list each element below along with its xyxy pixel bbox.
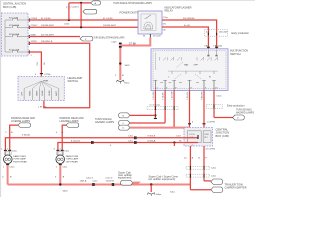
svg-text:OFF: OFF [194, 65, 199, 67]
fuse F2.10 15A [9, 24, 28, 28]
svg-text:SWITCH: SWITCH [68, 79, 79, 83]
lamp1 ground drop 57 BK [2, 165, 12, 185]
flasher thermal element [144, 22, 153, 29]
svg-text:1 A C2d3: 1 A C2d3 [219, 30, 229, 33]
connector C250F pin row1 [29, 18, 37, 22]
flasher relay box [138, 5, 192, 34]
svg-text:C4xx 4: C4xx 4 [86, 177, 94, 179]
svg-text:BOX (CJB): BOX (CJB) [3, 5, 16, 9]
wire flasher output 2 to MF switch top [162, 25, 208, 50]
wire 521 fuse3 to flag F [29, 34, 81, 36]
svg-text:C250: C250 [64, 24, 70, 26]
svg-text:194 BK-WHT: 194 BK-WHT [103, 25, 117, 27]
parking lamps flag left [10, 116, 35, 150]
lamp2 ground drop 57 BK [55, 165, 65, 185]
flag E trailer ground [118, 170, 141, 185]
svg-text:HAZARD LAMPS: HAZARD LAMPS [95, 120, 114, 124]
svg-text:S431: S431 [125, 65, 131, 67]
fuse F2.7 20A [9, 17, 28, 21]
splice and ground G401 [147, 183, 162, 196]
svg-text:LICENSE LAMPS: LICENSE LAMPS [11, 119, 30, 123]
headlamp switch output pin label [38, 106, 47, 108]
multifunction switch box [151, 49, 248, 91]
svg-text:equipment): equipment) [118, 176, 132, 180]
svg-text:PWR: PWR [204, 134, 209, 136]
svg-text:F2.7 20A: F2.7 20A [9, 17, 18, 20]
MF output wire 2 to flag C [163, 91, 166, 123]
svg-text:F2.50 20A: F2.50 20A [9, 49, 20, 52]
MF output wire 1 to flag B [153, 91, 157, 119]
wire 296 LB headlamp switch feed [29, 52, 47, 81]
flag D front lamps highlighted wire [119, 125, 190, 130]
early production connector row right [207, 103, 245, 108]
MF output wire 3 to flag D line [172, 91, 175, 128]
svg-text:C4xI: C4xI [176, 136, 181, 138]
svg-text:Early production: Early production [232, 31, 250, 35]
trailer connector row 1 [186, 166, 217, 170]
splice S204 on row1 [68, 19, 70, 21]
early production connector row left [147, 105, 178, 110]
svg-text:RIGHT REAR: RIGHT REAR [13, 160, 27, 163]
svg-text:LICENSE LAMPS: LICENSE LAMPS [60, 119, 79, 123]
svg-text:8 205-A: 8 205-A [148, 139, 156, 142]
svg-text:1 DG-WH: 1 DG-WH [172, 91, 174, 100]
splice dot on bus2 [173, 141, 175, 146]
svg-text:8 BR-WH: 8 BR-WH [201, 91, 203, 100]
flag A off-page [91, 1, 101, 5]
connector C2xx at ground corner [111, 41, 121, 47]
svg-text:PARK/TURN: PARK/TURN [13, 155, 26, 158]
bus2 turn feed wire [58, 139, 198, 150]
svg-text:G2xx: G2xx [124, 82, 130, 84]
svg-text:5 1 3 C2xx: 5 1 3 C2xx [150, 105, 161, 107]
flasher pin labels [143, 17, 169, 38]
svg-text:PARK/TURN: PARK/TURN [66, 155, 79, 158]
svg-text:HAZ: HAZ [184, 64, 189, 67]
ground G200 [115, 75, 130, 84]
fuse F2.16 20A [9, 33, 28, 37]
flag B power distribution [83, 9, 97, 14]
svg-text:1 C2P92: 1 C2P92 [207, 122, 216, 124]
park turn lamp left rear bulb [54, 148, 79, 168]
svg-text:HEAD: HEAD [41, 90, 44, 96]
svg-text:HEAD: HEAD [48, 90, 51, 96]
wire 41 LG-RD fuse1 to flasher [29, 18, 139, 20]
splice junction row2 [80, 26, 82, 28]
trailer tow flag lower [190, 182, 246, 192]
MF internal turn row [168, 71, 218, 79]
svg-text:C2xC: C2xC [216, 96, 222, 98]
MF contact pads and bottom pins [153, 80, 218, 90]
svg-text:TURN LAMP: TURN LAMP [66, 158, 79, 161]
connector pin row5 [29, 50, 32, 56]
svg-text:9 304-B: 9 304-B [148, 136, 156, 138]
trailer feed wire left from CJB [184, 146, 194, 190]
flasher ground wire 57 BK [120, 34, 150, 80]
connector C250C pin row2 [29, 25, 37, 29]
svg-text:PARK: PARK [36, 90, 39, 96]
trailer feed wire right from CJB [198, 146, 216, 181]
svg-text:PARK: PARK [29, 90, 32, 96]
splice on wire1 feeding flag B [154, 114, 156, 116]
trailer connector row 2 [186, 174, 217, 178]
text super crew upfitter [149, 174, 178, 181]
svg-text:TURN SIGNAL/STOP/HAZARD LAMPS: TURN SIGNAL/STOP/HAZARD LAMPS [113, 1, 152, 5]
svg-text:C2xx 4: C2xx 4 [106, 177, 114, 179]
wire 194 BK-WH fuse2 to flasher [29, 25, 139, 27]
connector pins on wires 4-5 [188, 122, 216, 124]
svg-text:SWITCH: SWITCH [230, 52, 241, 56]
svg-text:57 BK: 57 BK [129, 41, 137, 45]
MF output wire 6 to hazard flag [214, 91, 222, 118]
wire corner to hazard lamps flag [214, 117, 233, 119]
svg-text:C270b: C270b [44, 74, 51, 76]
splice S431 on ground [119, 62, 130, 66]
svg-text:4 A: 4 A [206, 30, 210, 33]
svg-text:(w/ upfitter equipment): (w/ upfitter equipment) [149, 177, 176, 181]
flag B rear lamps [119, 113, 156, 118]
svg-text:2 LG-WH: 2 LG-WH [153, 91, 155, 100]
svg-text:S401: S401 [63, 191, 69, 193]
svg-text:Early production: Early production [227, 103, 245, 107]
svg-text:F2.16 20A: F2.16 20A [9, 33, 20, 36]
CJB internal power bus [5, 20, 12, 52]
label 2 B at flag1 riser [5, 132, 63, 134]
svg-text:12 C2d7: 12 C2d7 [153, 36, 162, 38]
central junction box CJB [2, 2, 29, 56]
bottom ground bus 57 BK [8, 177, 191, 186]
wire riser to power distribution flag [80, 3, 82, 27]
svg-text:BATT: BATT [55, 90, 58, 96]
flag C rear lamps [119, 121, 166, 126]
flasher contact arm [144, 15, 151, 19]
svg-text:12 C2P92: 12 C2P92 [205, 148, 216, 150]
svg-text:9 304-A: 9 304-A [22, 133, 30, 136]
svg-text:1 97 12V: 1 97 12V [38, 106, 47, 108]
svg-text:TURN LAMP: TURN LAMP [13, 158, 26, 161]
connector C2x2 pins above MF switch [204, 45, 223, 48]
MF output wire 4 to CJB fuse box [187, 91, 190, 128]
trailer tow flag upper [204, 179, 223, 184]
svg-text:41 LG RD: 41 LG RD [103, 18, 113, 20]
connector pin row4 [29, 41, 37, 45]
connector C270b on riser [35, 74, 51, 77]
wire flasher output 1 to MF switch top [162, 18, 217, 50]
svg-text:TURN SIGNAL/STOP/HAZARD LAMPS: TURN SIGNAL/STOP/HAZARD LAMPS [94, 36, 125, 40]
page top border [0, 0, 255, 1]
svg-text:M: M [143, 36, 145, 38]
splice S401 on ground bus [59, 183, 68, 192]
early production connector dashed box right [205, 30, 250, 37]
wire 14 BR fuse4 to headlamp switch [29, 41, 90, 108]
svg-text:12128 B: 12128 B [106, 180, 115, 182]
CJB trailer tow box [184, 128, 229, 147]
connector C250B pin row3 [29, 34, 36, 38]
MF output wire 5 to CJB relay [201, 91, 204, 128]
svg-text:RLY: RLY [204, 137, 208, 139]
svg-text:LEFT REAR: LEFT REAR [66, 160, 78, 163]
flag group turn signal hazard lamps left [95, 117, 114, 124]
svg-text:C2d7: C2d7 [111, 41, 117, 43]
svg-text:C204 4: C204 4 [72, 7, 80, 9]
page left border [0, 0, 2, 197]
flag turn signal hazard lamps right [233, 108, 255, 120]
headlamp switch internal contacts [21, 81, 59, 101]
svg-text:CAMPER ADAPTER: CAMPER ADAPTER [225, 186, 247, 190]
park turn lamp right front bulb [1, 148, 27, 168]
svg-text:5 DG-LB: 5 DG-LB [187, 91, 189, 99]
svg-text:CENTRAL JUNCTION: CENTRAL JUNCTION [3, 2, 26, 6]
MF internal hazard row [156, 53, 218, 71]
svg-text:1405 A: 1405 A [80, 179, 87, 182]
svg-text:HAZARD LAMPS: HAZARD LAMPS [236, 111, 254, 115]
svg-text:BOX (CJB): BOX (CJB) [216, 134, 229, 138]
flag F turn signal hazard lamps [80, 36, 93, 41]
svg-text:F2.50: F2.50 [190, 134, 196, 136]
headlamp switch box [18, 76, 82, 101]
node S206 on top wire [80, 2, 82, 4]
parking lamps flag 2 [60, 116, 84, 150]
svg-text:8 LG-OG: 8 LG-OG [71, 140, 80, 142]
svg-text:F2.10 15A: F2.10 15A [9, 24, 20, 27]
svg-text:3 LB-BK: 3 LB-BK [163, 92, 165, 100]
svg-text:RELAY: RELAY [165, 8, 174, 12]
bus1 park feed wire [5, 133, 198, 150]
fuse F2.50 20A [9, 49, 28, 53]
MF switch top pins [207, 50, 217, 57]
wire row1 riser to flag A [65, 3, 91, 20]
